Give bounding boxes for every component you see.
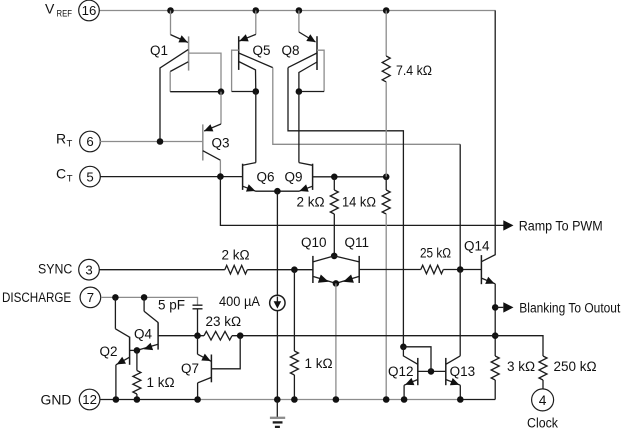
svg-text:Q12: Q12 bbox=[388, 364, 414, 379]
svg-text:Q14: Q14 bbox=[464, 239, 490, 254]
transistor Q6 collector lead bbox=[243, 163, 256, 166]
wire Q14 emitter down bbox=[494, 284, 496, 356]
transistor Q5 collector 2 lead bbox=[239, 53, 273, 68]
transistor Q12 collector lead bbox=[403, 347, 417, 365]
transistor Q5 emitter arrow bbox=[239, 34, 248, 41]
wire RT to Q3 base bbox=[100, 141, 203, 143]
junction GND 1k bbox=[134, 396, 141, 403]
junction GND Q12 bbox=[401, 396, 408, 403]
wire Q13 emitter to GND bbox=[459, 385, 461, 399]
ground symbol bar 3 bbox=[275, 426, 280, 428]
svg-text:400 µA: 400 µA bbox=[219, 294, 260, 309]
svg-text:3 kΩ: 3 kΩ bbox=[507, 359, 535, 374]
wire Q9 base node to 2k bbox=[333, 177, 335, 190]
wire Q8 to Q9 collector bbox=[298, 92, 300, 163]
pin 16 VREF bbox=[79, 0, 100, 21]
transistor Q12 base bar bbox=[417, 358, 419, 385]
wire 1k to GND bbox=[293, 375, 295, 400]
junction GND 1k SYNC bbox=[291, 396, 298, 403]
junction GND current source bbox=[274, 396, 281, 403]
transistor Q8 collector 1 lead bbox=[299, 62, 317, 92]
transistor Q14 emitter lead bbox=[481, 278, 495, 284]
transistor Q5 base bar bbox=[238, 36, 240, 70]
junction GND 14k bbox=[383, 396, 390, 403]
transistor Q1 collector 2 lead bbox=[170, 62, 188, 72]
transistor Q13 emitter lead bbox=[446, 380, 461, 386]
junction Q12-Q13 base bbox=[428, 368, 435, 375]
pin 6 RT bbox=[80, 131, 101, 152]
junction VREF-Q5 bbox=[253, 7, 260, 14]
svg-text:Q2: Q2 bbox=[100, 344, 118, 359]
resistor 3k bbox=[491, 356, 499, 380]
junction GND Q10-Q11 bbox=[333, 396, 340, 403]
svg-text:Q10: Q10 bbox=[301, 235, 327, 250]
wire Q2 collector to DISCHARGE bbox=[114, 297, 116, 328]
transistor Q10 collector lead bbox=[313, 256, 334, 262]
svg-text:T: T bbox=[67, 173, 73, 184]
svg-text:12: 12 bbox=[82, 392, 97, 407]
junction Q8 base-collector bbox=[296, 88, 303, 95]
wire Q8 base loop bbox=[317, 50, 324, 91]
wire Q2 emitter to GND bbox=[115, 365, 117, 400]
resistor 1k Q2 bbox=[133, 371, 141, 395]
node SYNC divider bbox=[291, 266, 298, 273]
resistor 2k collector load bbox=[330, 190, 338, 214]
transistor Q3 emitter arrow bbox=[204, 124, 213, 131]
transistor Q4 base bar bbox=[157, 322, 159, 349]
wire cap to 23k node bbox=[197, 309, 199, 336]
wire to 250k bbox=[495, 336, 543, 356]
transistor Q2 base bar bbox=[129, 337, 131, 365]
wire current source to GND bbox=[276, 311, 278, 400]
arrow Blanking bbox=[503, 302, 513, 312]
wire 14k to GND bbox=[385, 214, 387, 400]
wire Q5 to Q6 collector bbox=[255, 92, 257, 163]
transistor Q2 emitter arrow bbox=[117, 357, 126, 365]
resistor 7.4k bbox=[382, 56, 390, 82]
wire Q3 collector to CT node bbox=[219, 160, 221, 176]
transistor Q11 emitter arrow bbox=[343, 275, 354, 283]
svg-text:Q7: Q7 bbox=[181, 361, 199, 376]
svg-text:3: 3 bbox=[85, 262, 92, 277]
junction 23k right bbox=[237, 332, 244, 339]
wire Q7 collector to GND bbox=[197, 383, 199, 400]
svg-text:4: 4 bbox=[539, 393, 547, 408]
svg-text:T: T bbox=[67, 138, 73, 149]
transistor Q5 collector 1 lead bbox=[239, 62, 256, 92]
pin 4 clock bbox=[532, 389, 554, 411]
svg-text:V: V bbox=[45, 0, 55, 16]
junction Q9 base 2k bbox=[331, 174, 338, 181]
transistor Q8 emitter arrow bbox=[306, 34, 315, 42]
resistor 14k bbox=[382, 190, 390, 214]
pin 12 GND bbox=[79, 389, 100, 410]
transistor Q1 emitter arrow bbox=[178, 35, 187, 42]
transistor Q4 emitter lead bbox=[137, 344, 158, 350]
svg-text:Q9: Q9 bbox=[285, 169, 303, 184]
svg-text:Q5: Q5 bbox=[253, 43, 271, 58]
wire Q7 emitter to 23k node bbox=[197, 336, 199, 355]
wire Q1 emitter from VREF bbox=[170, 11, 172, 35]
wire Q4 base to 23k bbox=[158, 335, 204, 337]
wire Q10-Q11 emitters to GND bbox=[335, 283, 337, 399]
wire Q8 collector2 route to Q12 collector bbox=[288, 68, 403, 347]
wire Q8 emitter from VREF bbox=[298, 11, 300, 33]
transistor Q8 collector 2 lead bbox=[288, 53, 317, 68]
svg-text:Q4: Q4 bbox=[134, 327, 153, 342]
transistor Q10 emitter lead bbox=[313, 276, 336, 283]
wire VREF rail bbox=[99, 10, 496, 12]
resistor 23k bbox=[204, 331, 232, 340]
transistor Q7 base bar bbox=[210, 355, 212, 383]
transistor Q9 collector lead bbox=[299, 163, 313, 166]
wire Q2 base stub bbox=[130, 349, 137, 351]
pin 5 CT bbox=[80, 166, 101, 187]
svg-text:Q3: Q3 bbox=[212, 136, 230, 151]
svg-text:6: 6 bbox=[86, 134, 93, 149]
transistor Q3 base bar bbox=[202, 124, 204, 160]
wire DISCHARGE bbox=[101, 297, 198, 305]
junction VREF-Q8 bbox=[296, 7, 303, 14]
transistor Q8 base bar bbox=[316, 36, 318, 70]
arrow Ramp To PWM bbox=[503, 220, 513, 230]
current source 400uA bbox=[270, 295, 285, 310]
wire Q6-Q9 tail upper bbox=[276, 191, 278, 295]
transistor Q13 base bar bbox=[445, 358, 447, 385]
svg-text:C: C bbox=[56, 165, 66, 181]
transistor Q10 base bar bbox=[312, 256, 314, 283]
transistor Q10 emitter arrow bbox=[318, 275, 329, 283]
wire Q9 base row bbox=[313, 176, 387, 178]
transistor Q9 emitter arrow bbox=[299, 184, 308, 191]
transistor Q1 emitter lead bbox=[171, 35, 189, 43]
junction GND Q2 bbox=[113, 396, 120, 403]
svg-text:2 kΩ: 2 kΩ bbox=[222, 248, 250, 263]
transistor Q8 emitter lead bbox=[299, 32, 316, 42]
svg-text:R: R bbox=[56, 130, 66, 146]
junction Q9 base 14k bbox=[383, 174, 390, 181]
junction Q14 base bbox=[457, 266, 464, 273]
transistor Q2 collector lead bbox=[115, 329, 129, 337]
wire 23k to Q14 emitter node bbox=[232, 335, 495, 337]
wire Q1 base loop bbox=[189, 53, 221, 92]
wire 25k to Q14 base bbox=[443, 269, 481, 271]
wire Q2 base node to 1k bbox=[136, 350, 138, 370]
junction Q14 emitter 3k bbox=[492, 332, 499, 339]
wire blanking stub bbox=[495, 306, 503, 308]
svg-text:23 kΩ: 23 kΩ bbox=[206, 314, 242, 329]
transistor Q13 emitter arrow bbox=[450, 378, 459, 385]
junction Q1 base-collector bbox=[218, 88, 225, 95]
svg-text:Q1: Q1 bbox=[150, 43, 168, 58]
svg-text:1 kΩ: 1 kΩ bbox=[147, 375, 175, 390]
node CT junction bbox=[217, 173, 224, 180]
svg-text:7.4 kΩ: 7.4 kΩ bbox=[396, 63, 432, 78]
transistor Q4 collector lead bbox=[144, 311, 158, 322]
junction Q12 collector bbox=[400, 344, 407, 351]
transistor Q11 base bar bbox=[358, 256, 360, 283]
wire GND rail right bbox=[460, 399, 495, 401]
ground symbol bar 1 bbox=[270, 417, 285, 419]
transistor Q12 emitter lead bbox=[404, 380, 418, 386]
transistor Q2 emitter lead bbox=[116, 357, 130, 365]
wire CT to Q6 base bbox=[100, 176, 243, 178]
node RT junction with Q1 collector bbox=[157, 138, 164, 145]
wire SYNC divider to 1k bbox=[293, 270, 295, 351]
junction Q6-Q9 emitters bbox=[274, 188, 281, 195]
pin 7 DISCHARGE bbox=[80, 287, 101, 308]
wire Q12 emitter to GND bbox=[403, 385, 405, 399]
transistor Q11 emitter lead bbox=[336, 276, 359, 283]
wire Q5 route drop to Q14 base bbox=[459, 144, 461, 269]
wire GND rail middle bbox=[198, 399, 461, 401]
wire Q14 base to Q13 collector bbox=[459, 270, 461, 356]
wire Q5 base loop bbox=[232, 50, 239, 91]
junction blanking tap bbox=[492, 304, 499, 311]
resistor 2k SYNC bbox=[225, 265, 248, 274]
wire Q4 collector to DISCHARGE bbox=[143, 297, 145, 311]
junction GND Q13 bbox=[457, 396, 464, 403]
wire 7.4k to Q9 base node bbox=[385, 82, 387, 177]
svg-text:25 kΩ: 25 kΩ bbox=[420, 246, 451, 261]
wire Q5 base loop bottom bbox=[232, 91, 256, 93]
wire 2k to Q10 base bbox=[247, 269, 313, 271]
wire SYNC to 2k bbox=[100, 269, 225, 271]
transistor Q4 emitter arrow bbox=[144, 343, 153, 350]
wire Q12 base row bbox=[418, 370, 446, 372]
svg-text:2 kΩ: 2 kΩ bbox=[297, 195, 325, 210]
svg-text:Q13: Q13 bbox=[450, 364, 476, 379]
junction DISCHARGE Q2 bbox=[112, 294, 119, 301]
transistor Q6 emitter lead bbox=[243, 186, 278, 191]
ground symbol stem bbox=[276, 400, 278, 418]
transistor Q12 emitter arrow bbox=[405, 378, 414, 385]
junction 23k left bbox=[194, 332, 201, 339]
junction DISCHARGE Q4 bbox=[141, 294, 148, 301]
transistor Q9 base bar bbox=[312, 164, 314, 190]
wire 3k to GND bbox=[494, 380, 496, 400]
svg-text:Ramp To PWM: Ramp To PWM bbox=[519, 218, 603, 233]
wire Q11 base bbox=[359, 269, 421, 271]
transistor Q6 base bar bbox=[242, 164, 244, 190]
svg-text:250 kΩ: 250 kΩ bbox=[554, 359, 597, 374]
transistor Q5 emitter lead bbox=[239, 34, 255, 41]
wire 2k to Q10-Q11 collectors bbox=[333, 214, 335, 256]
wire Q5 emitter from VREF bbox=[255, 11, 257, 35]
junction GND Q7 bbox=[194, 396, 201, 403]
wire Ramp To PWM from CT node bbox=[220, 177, 503, 226]
junction Q2 base node bbox=[134, 347, 141, 354]
current source arrow head bbox=[274, 301, 282, 308]
svg-text:5: 5 bbox=[86, 169, 93, 184]
svg-text:GND: GND bbox=[41, 392, 72, 407]
svg-text:14 kΩ: 14 kΩ bbox=[342, 195, 376, 210]
transistor Q6 emitter arrow bbox=[246, 184, 255, 191]
transistor Q14 base bar bbox=[480, 255, 482, 284]
transistor Q3 collector lead bbox=[203, 151, 221, 161]
transistor Q1 collector 1 to RT node bbox=[160, 50, 188, 142]
transistor Q9 emitter lead bbox=[277, 186, 312, 191]
svg-text:16: 16 bbox=[82, 3, 97, 18]
transistor Q7 collector lead bbox=[198, 377, 212, 383]
ground symbol bar 2 bbox=[273, 421, 283, 423]
svg-text:Blanking To Outout: Blanking To Outout bbox=[519, 300, 620, 315]
capacitor 5pF bbox=[193, 305, 203, 309]
wire VREF to 7.4k bbox=[385, 11, 387, 57]
wire VREF right drop to Q14 collector bbox=[481, 11, 495, 262]
wire Q1 collector 2 riser bbox=[169, 72, 171, 92]
transistor Q13 collector lead bbox=[446, 356, 460, 364]
junction Q10-Q11 collectors bbox=[331, 253, 338, 260]
wire Q1 to Q3 emitter bbox=[220, 92, 222, 124]
svg-text:5 pF: 5 pF bbox=[158, 298, 185, 313]
svg-text:Clock: Clock bbox=[527, 415, 558, 428]
transistor Q7 emitter arrow bbox=[201, 354, 210, 361]
junction VREF-7.4k bbox=[383, 7, 390, 14]
wire Q1 collector-base tie bbox=[170, 91, 221, 93]
junction Q5 base-collector bbox=[253, 88, 260, 95]
transistor Q7 emitter lead bbox=[198, 354, 212, 361]
svg-text:Q8: Q8 bbox=[282, 43, 300, 58]
wire GND rail left bbox=[100, 399, 198, 401]
svg-text:1 kΩ: 1 kΩ bbox=[305, 356, 333, 371]
resistor 25k bbox=[421, 265, 444, 274]
svg-text:DISCHARGE: DISCHARGE bbox=[2, 290, 71, 305]
current source arrow shaft bbox=[276, 297, 278, 305]
pin 3 SYNC bbox=[79, 259, 100, 280]
svg-text:REF: REF bbox=[57, 9, 73, 20]
resistor 250k bbox=[539, 356, 547, 380]
wire Q5 collector2 route to Q14 base bbox=[273, 68, 460, 145]
wire 250k to pin 4 bbox=[542, 380, 544, 389]
wire Q8 base loop bottom bbox=[299, 91, 324, 93]
junction VREF-Q1 bbox=[167, 7, 174, 14]
svg-text:7: 7 bbox=[87, 290, 94, 305]
resistor 1k SYNC divider bbox=[290, 351, 298, 375]
transistor Q11 collector lead bbox=[334, 256, 359, 262]
wire Q9 base node to 14k bbox=[385, 177, 387, 190]
svg-text:Q11: Q11 bbox=[345, 235, 370, 250]
transistor Q3 emitter lead bbox=[204, 124, 221, 131]
wire Q7 base loop bbox=[211, 336, 240, 369]
svg-text:SYNC: SYNC bbox=[38, 262, 73, 277]
transistor Q1 base bar bbox=[188, 36, 190, 70]
wire Q12 collector-base tie bbox=[403, 347, 431, 372]
junction Q10-Q11 emitters bbox=[333, 280, 340, 287]
svg-text:Q6: Q6 bbox=[257, 169, 275, 184]
wire 1k to GND rail bbox=[136, 394, 138, 400]
transistor Q14 emitter arrow bbox=[485, 277, 494, 284]
